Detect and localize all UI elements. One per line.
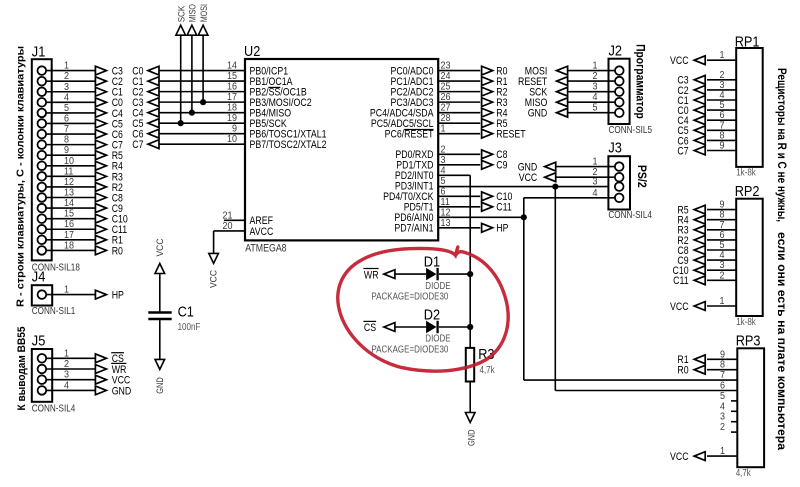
svg-text:3: 3 bbox=[720, 412, 725, 423]
svg-text:14: 14 bbox=[227, 61, 237, 72]
svg-text:3: 3 bbox=[64, 82, 69, 93]
svg-text:если они есть на плате компьют: если они есть на плате компьютера bbox=[775, 232, 789, 450]
svg-text:2: 2 bbox=[64, 71, 69, 82]
svg-text:Программатор: Программатор bbox=[634, 44, 648, 119]
svg-text:4: 4 bbox=[720, 401, 725, 412]
svg-text:10: 10 bbox=[64, 156, 74, 167]
svg-text:18: 18 bbox=[64, 240, 74, 251]
svg-text:VCC: VCC bbox=[670, 451, 689, 463]
svg-text:4: 4 bbox=[593, 92, 598, 103]
svg-text:15: 15 bbox=[227, 71, 237, 82]
svg-text:C11: C11 bbox=[673, 275, 689, 287]
svg-text:CONN-SIL5: CONN-SIL5 bbox=[609, 125, 653, 136]
svg-text:GND: GND bbox=[155, 377, 166, 394]
svg-text:VCC: VCC bbox=[519, 172, 538, 184]
svg-text:HP: HP bbox=[112, 290, 124, 302]
svg-text:К выводам ВВ55: К выводам ВВ55 bbox=[16, 327, 28, 411]
svg-text:2: 2 bbox=[720, 270, 725, 281]
svg-text:VCC: VCC bbox=[670, 55, 689, 67]
svg-text:8: 8 bbox=[64, 135, 69, 146]
svg-text:4,7k: 4,7k bbox=[736, 468, 752, 479]
svg-text:7: 7 bbox=[720, 370, 725, 381]
svg-text:VCC: VCC bbox=[155, 238, 166, 256]
svg-text:1: 1 bbox=[64, 285, 69, 296]
svg-text:GND: GND bbox=[112, 385, 132, 397]
svg-text:2: 2 bbox=[593, 71, 598, 82]
svg-text:1k-8k: 1k-8k bbox=[736, 168, 756, 179]
svg-text:15: 15 bbox=[64, 209, 74, 220]
svg-text:6: 6 bbox=[720, 381, 725, 392]
svg-text:C9: C9 bbox=[496, 160, 507, 172]
svg-text:R0: R0 bbox=[677, 365, 688, 377]
svg-text:GND: GND bbox=[467, 429, 478, 446]
svg-text:13: 13 bbox=[64, 188, 74, 199]
svg-text:J2: J2 bbox=[609, 43, 623, 60]
svg-text:3: 3 bbox=[593, 82, 598, 93]
svg-text:2: 2 bbox=[720, 422, 725, 433]
svg-text:CONN-SIL1: CONN-SIL1 bbox=[32, 306, 76, 317]
svg-text:VCC: VCC bbox=[670, 301, 689, 313]
svg-text:1: 1 bbox=[593, 61, 598, 72]
svg-text:16: 16 bbox=[227, 82, 237, 93]
svg-text:14: 14 bbox=[64, 198, 74, 209]
svg-text:D2: D2 bbox=[424, 306, 440, 323]
svg-text:100nF: 100nF bbox=[178, 322, 201, 333]
svg-text:PB7/TOSC2/XTAL2: PB7/TOSC2/XTAL2 bbox=[250, 139, 327, 151]
svg-text:4: 4 bbox=[64, 92, 69, 103]
svg-text:RP2: RP2 bbox=[735, 183, 760, 200]
svg-text:3: 3 bbox=[593, 177, 598, 188]
svg-text:U2: U2 bbox=[244, 43, 260, 60]
svg-text:J1: J1 bbox=[32, 44, 46, 61]
svg-text:J5: J5 bbox=[32, 333, 46, 350]
svg-text:10: 10 bbox=[227, 134, 237, 145]
svg-text:20: 20 bbox=[223, 221, 233, 232]
svg-text:C11: C11 bbox=[496, 202, 512, 214]
svg-text:18: 18 bbox=[227, 103, 237, 114]
svg-text:MOSI: MOSI bbox=[199, 4, 210, 22]
svg-text:CS: CS bbox=[364, 322, 376, 334]
svg-text:RP3: RP3 bbox=[736, 333, 761, 350]
svg-text:J4: J4 bbox=[32, 269, 46, 286]
svg-text:17: 17 bbox=[227, 92, 237, 103]
svg-text:AVCC: AVCC bbox=[250, 226, 274, 238]
svg-text:9: 9 bbox=[720, 141, 725, 152]
svg-text:1: 1 bbox=[720, 296, 725, 307]
svg-text:C1: C1 bbox=[178, 304, 194, 321]
svg-text:C7: C7 bbox=[677, 145, 688, 157]
svg-text:11: 11 bbox=[64, 166, 74, 177]
svg-text:4: 4 bbox=[64, 380, 69, 391]
svg-text:PACKAGE=DIODE30: PACKAGE=DIODE30 bbox=[371, 292, 448, 303]
svg-text:DIODE: DIODE bbox=[425, 334, 451, 345]
svg-text:C7: C7 bbox=[132, 139, 143, 151]
svg-text:ATMEGA8: ATMEGA8 bbox=[245, 243, 286, 255]
svg-text:21: 21 bbox=[223, 210, 233, 221]
svg-text:7: 7 bbox=[64, 124, 69, 135]
svg-text:9: 9 bbox=[64, 145, 69, 156]
svg-text:R0: R0 bbox=[112, 245, 123, 257]
svg-text:R - строки клавиатуры, C - кол: R - строки клавиатуры, C - колонки клави… bbox=[15, 46, 27, 307]
svg-text:12: 12 bbox=[64, 177, 74, 188]
svg-text:9: 9 bbox=[232, 124, 237, 135]
svg-text:1k-8k: 1k-8k bbox=[736, 317, 756, 328]
svg-text:1: 1 bbox=[64, 348, 69, 359]
svg-text:1: 1 bbox=[720, 446, 725, 457]
svg-text:GND: GND bbox=[528, 108, 548, 120]
svg-text:16: 16 bbox=[64, 219, 74, 230]
svg-text:MISO: MISO bbox=[188, 4, 199, 22]
svg-text:D1: D1 bbox=[424, 254, 440, 271]
svg-text:1: 1 bbox=[720, 50, 725, 61]
svg-text:VCC: VCC bbox=[208, 270, 219, 288]
svg-text:6: 6 bbox=[64, 113, 69, 124]
svg-text:CONN-SIL4: CONN-SIL4 bbox=[608, 210, 652, 221]
svg-text:19: 19 bbox=[227, 113, 237, 124]
svg-text:SCK: SCK bbox=[177, 5, 188, 22]
svg-text:CONN-SIL4: CONN-SIL4 bbox=[32, 404, 76, 415]
svg-text:17: 17 bbox=[64, 230, 74, 241]
svg-text:2: 2 bbox=[64, 359, 69, 370]
svg-text:PACKAGE=DIODE30: PACKAGE=DIODE30 bbox=[371, 345, 448, 356]
svg-text:PS/2: PS/2 bbox=[635, 165, 649, 188]
svg-text:5: 5 bbox=[593, 103, 598, 114]
svg-text:5: 5 bbox=[64, 103, 69, 114]
svg-text:HP: HP bbox=[496, 223, 508, 235]
svg-text:RESET: RESET bbox=[496, 129, 526, 141]
svg-text:4,7k: 4,7k bbox=[480, 365, 496, 376]
svg-text:5: 5 bbox=[720, 391, 725, 402]
svg-text:Рещисторы на R и C не нужны,: Рещисторы на R и C не нужны, bbox=[775, 68, 789, 222]
svg-text:5: 5 bbox=[441, 176, 446, 187]
svg-text:1: 1 bbox=[64, 61, 69, 72]
svg-text:PD7/AIN1: PD7/AIN1 bbox=[394, 223, 433, 235]
svg-text:3: 3 bbox=[64, 370, 69, 381]
svg-text:PC6/RESET: PC6/RESET bbox=[385, 129, 434, 141]
svg-text:DIODE: DIODE bbox=[425, 281, 451, 292]
svg-text:WR: WR bbox=[364, 269, 379, 281]
svg-text:J3: J3 bbox=[608, 140, 622, 157]
